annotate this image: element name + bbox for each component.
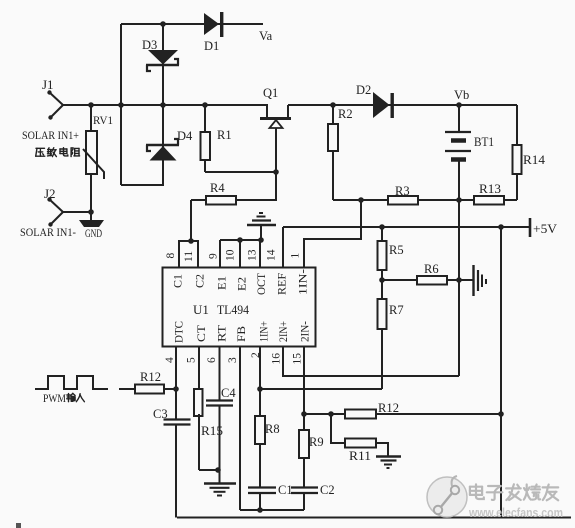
svg-text:+5V: +5V [533,222,557,236]
svg-text:14: 14 [266,249,278,261]
svg-text:R1: R1 [217,128,232,142]
svg-text:PWM: PWM [43,393,66,405]
svg-text:D2: D2 [356,83,371,97]
svg-text:R15: R15 [201,424,223,438]
svg-text:REF: REF [277,273,289,295]
svg-text:BT1: BT1 [474,135,494,149]
svg-text:FB: FB [236,326,248,342]
svg-text:E2: E2 [237,277,249,291]
svg-text:R6: R6 [424,262,439,276]
svg-text:R5: R5 [389,243,404,257]
svg-text:2IN-: 2IN- [300,321,312,342]
svg-text:R11: R11 [349,449,371,463]
svg-text:R9: R9 [309,435,324,449]
svg-text:E1: E1 [217,276,229,290]
svg-text:RT: RT [217,325,229,342]
svg-text:3: 3 [227,357,239,363]
svg-text:D3: D3 [142,38,157,52]
svg-text:D1: D1 [204,39,219,53]
svg-text:11: 11 [183,251,195,262]
svg-text:6: 6 [206,357,218,363]
svg-text:Va: Va [259,29,273,43]
svg-text:Q1: Q1 [263,86,278,100]
svg-text:C2: C2 [195,274,207,288]
svg-text:GND: GND [85,226,102,240]
svg-text:2IN+: 2IN+ [278,321,290,342]
svg-text:5: 5 [186,357,198,363]
svg-text:1: 1 [290,253,302,259]
svg-text:TL494: TL494 [217,302,249,317]
svg-text:R4: R4 [210,181,225,195]
svg-text:C1: C1 [173,274,185,288]
svg-text:DTC: DTC [174,321,186,343]
svg-text:13: 13 [247,249,259,261]
svg-text:1IN-: 1IN- [298,269,310,295]
svg-text:Vb: Vb [454,88,469,102]
svg-text:C2: C2 [320,483,335,497]
svg-text:SOLAR IN1-: SOLAR IN1- [20,225,76,239]
svg-text:R3: R3 [395,184,410,198]
svg-text:R12: R12 [140,370,161,384]
svg-text:C3: C3 [153,407,168,421]
svg-text:R2: R2 [338,107,353,121]
svg-text:1IN+: 1IN+ [259,321,271,342]
svg-text:2: 2 [250,352,262,358]
svg-text:U1: U1 [193,302,209,317]
svg-text:R7: R7 [389,303,404,317]
svg-text:www.elecfans.com: www.elecfans.com [468,505,563,520]
svg-text:D4: D4 [177,129,193,143]
svg-text:R14: R14 [523,153,546,167]
svg-text:RV1: RV1 [93,113,113,127]
svg-text:9: 9 [208,253,220,259]
svg-text:10: 10 [225,249,237,261]
svg-text:4: 4 [164,357,176,363]
svg-text:R12: R12 [378,401,399,415]
svg-text:OCT: OCT [256,273,268,295]
svg-text:C1: C1 [278,483,293,497]
svg-text:R8: R8 [265,422,280,436]
svg-text:SOLAR IN1+: SOLAR IN1+ [22,128,79,142]
svg-text:16: 16 [271,353,283,365]
svg-text:J1: J1 [42,77,54,92]
svg-text:15: 15 [292,353,304,365]
svg-text:R13: R13 [479,182,501,196]
svg-text:CT: CT [196,325,208,342]
svg-text:8: 8 [165,253,177,259]
svg-text:C4: C4 [221,386,236,400]
svg-text:J2: J2 [44,186,56,201]
